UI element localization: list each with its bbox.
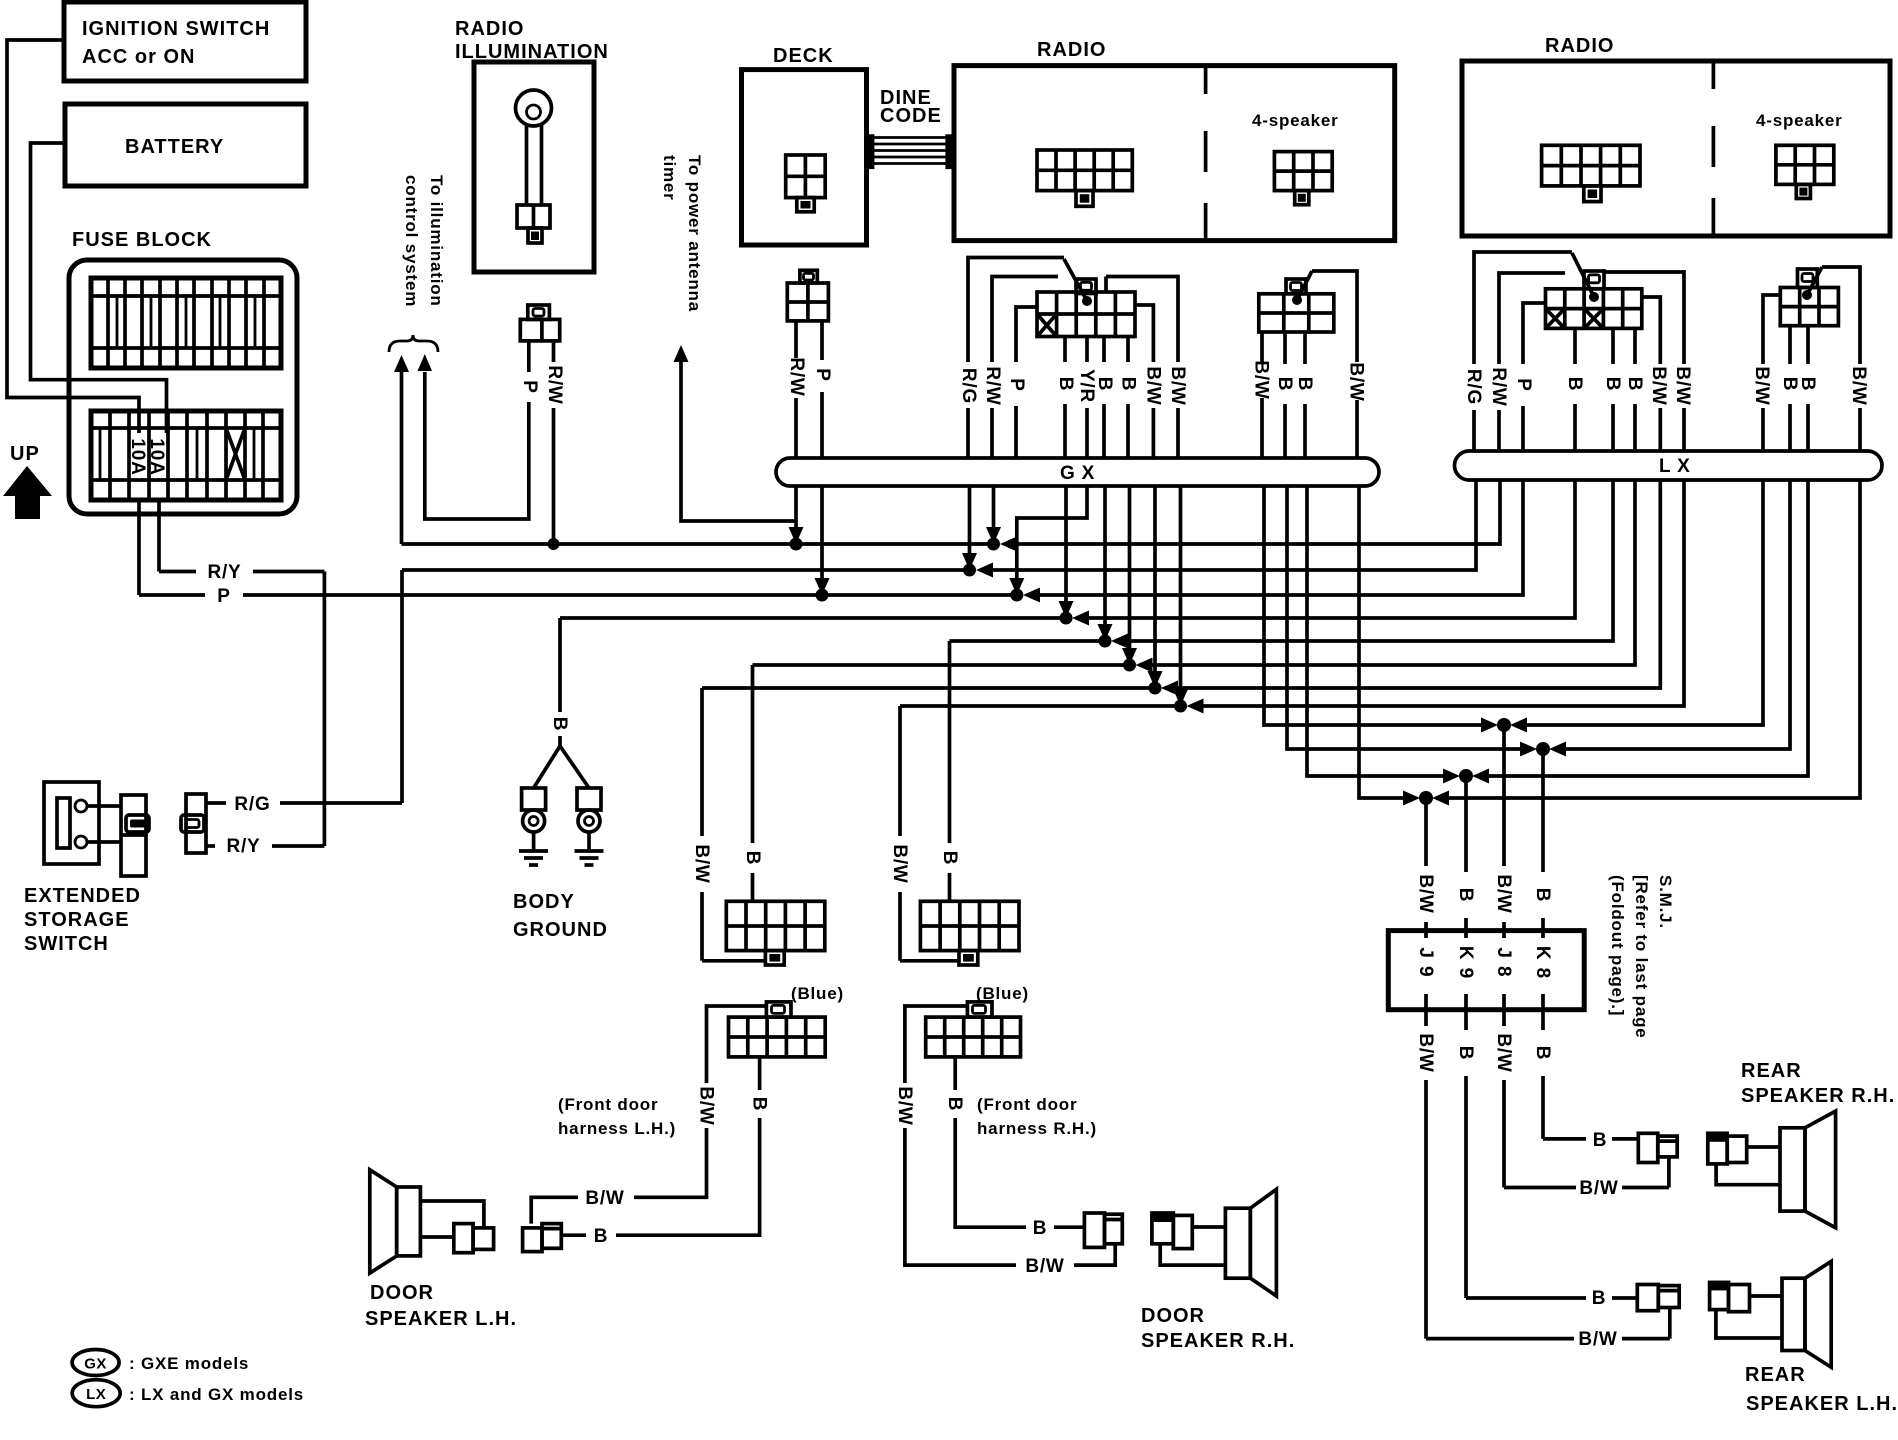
svg-text:R/G: R/G (958, 368, 979, 404)
radio LX divider dashed (1712, 62, 1716, 235)
svg-text:R/W: R/W (982, 366, 1003, 405)
wire SMJ K8 B (1532, 749, 1638, 1151)
legend LX (72, 1380, 304, 1407)
radio LX 4-speaker harness connector (1780, 269, 1838, 326)
extended storage switch label (24, 885, 141, 955)
wire fuse to P line (137, 500, 141, 595)
wire radio GX B door ground (1122, 337, 1137, 672)
svg-text:GX: GX (84, 1356, 107, 1373)
svg-text:R/Y: R/Y (207, 562, 241, 583)
radio GX box (954, 66, 1395, 241)
svg-text:B/W: B/W (1493, 1033, 1514, 1072)
to power antenna timer label (660, 155, 704, 312)
power antenna arrow and wire (674, 345, 797, 521)
wire SMJ K9 B (1455, 776, 1637, 1309)
wire deck P (815, 321, 830, 602)
wire R/G from storage switch connector (206, 570, 402, 815)
svg-text:harness L.H.): harness L.H.) (558, 1119, 676, 1138)
wire SMJ J9 B/W (1415, 798, 1670, 1350)
svg-text:B/W: B/W (1415, 1033, 1436, 1072)
svg-text:4-speaker: 4-speaker (1252, 111, 1339, 130)
svg-text:B/W: B/W (1672, 366, 1693, 405)
wire B/W front door RH net horizontal (900, 704, 1181, 708)
svg-text:P: P (1006, 378, 1027, 391)
fuse block upper grid (91, 278, 281, 368)
svg-text:R/W: R/W (544, 365, 565, 404)
wire R/W from illumination connector to R/W line (552, 341, 556, 362)
brace under illumination label (389, 335, 438, 352)
svg-text:B: B (944, 1097, 965, 1112)
wire radio LX B/W (1) (1161, 297, 1660, 696)
wire radio GX B/W right (1106, 277, 1188, 713)
deck box (742, 70, 867, 245)
rear speaker RH harness connector (1638, 1133, 1677, 1162)
wire radio LX B (2) (1111, 328, 1613, 648)
svg-text:B: B (1564, 377, 1585, 392)
wire GX speaker B/W to SMJ J9 (1312, 271, 1420, 806)
svg-text:P: P (1513, 378, 1534, 391)
door speaker RH symbol (1225, 1189, 1276, 1296)
wire GX speaker B/W to SMJ J8 (1262, 332, 1498, 733)
svg-text:R/W: R/W (1488, 367, 1509, 406)
wire B/W to blue connector LH (691, 688, 765, 961)
svg-text:: LX and GX models: : LX and GX models (129, 1385, 304, 1404)
svg-text:(Front door: (Front door (558, 1095, 658, 1114)
svg-text:B: B (742, 851, 763, 866)
rear speaker RH symbol (1780, 1111, 1836, 1228)
LX bus pill (1455, 451, 1883, 480)
wire radio LX P (1023, 303, 1546, 603)
wire radio LX R/W (1000, 273, 1565, 552)
wire ignition switch to fuse block (7, 40, 139, 433)
radio GX harness connector X mark (1037, 314, 1057, 337)
wire P from illumination connector (527, 341, 531, 372)
svg-text:B: B (749, 1097, 770, 1112)
svg-text:To power antenna: To power antenna (685, 155, 704, 312)
wire radio LX B (1) (1072, 328, 1575, 625)
ground symbol left (519, 851, 548, 865)
blue connector RH body side (920, 901, 1019, 965)
svg-text:harness R.H.): harness R.H.) (977, 1119, 1097, 1138)
ignition switch box (64, 2, 306, 81)
wire deck R/W (789, 321, 804, 551)
wire radio GX Y/R (1009, 337, 1087, 602)
svg-text:B: B (1033, 1218, 1048, 1239)
wire GX speaker B to SMJ K8 (1285, 332, 1537, 757)
svg-text:BATTERY: BATTERY (125, 136, 224, 158)
svg-text:R/G: R/G (1463, 369, 1484, 405)
svg-text:B/W: B/W (1493, 874, 1514, 913)
svg-text:B/W: B/W (1143, 366, 1164, 405)
svg-text:P: P (217, 586, 230, 607)
blue connector RH door side (926, 1002, 1021, 1057)
svg-text:Y/R: Y/R (1076, 369, 1097, 403)
svg-text:SPEAKER R.H.: SPEAKER R.H. (1741, 1085, 1895, 1107)
svg-text:B/W: B/W (1751, 366, 1772, 405)
svg-text:DOOR: DOOR (1141, 1305, 1205, 1327)
wire B to blue connector LH (742, 665, 763, 901)
front door harness LH label (558, 1095, 676, 1138)
UP label and arrow (3, 443, 52, 519)
svg-text:GROUND: GROUND (513, 919, 608, 941)
GX bus pill (776, 458, 1379, 486)
wire B door RH (944, 1057, 1084, 1239)
svg-text:B: B (1118, 377, 1139, 392)
rear speaker LH speaker connector (1710, 1282, 1750, 1311)
rear speaker LH wires (1716, 1296, 1782, 1338)
to illumination control system label (402, 175, 446, 307)
illumination control arrows (394, 354, 432, 544)
svg-text:J9: J9 (1415, 947, 1436, 984)
radio LX box (1462, 61, 1890, 236)
wire GX speaker B to SMJ K9 (1305, 332, 1460, 784)
door speaker LH harness connector (523, 1224, 562, 1252)
svg-text:B: B (594, 1226, 609, 1247)
wire LX speaker B/W to SMJ J8 (1510, 295, 1780, 733)
svg-text:DOOR: DOOR (370, 1282, 434, 1304)
deck internal connector (786, 155, 826, 212)
door speaker LH wires (420, 1201, 484, 1237)
svg-text:B/W: B/W (1848, 366, 1869, 405)
wire radio LX B/W (2) (1187, 272, 1685, 714)
wire radio LX R/G (976, 252, 1572, 578)
door speaker RH harness connector (1084, 1213, 1122, 1247)
door speaker LH speaker connector (454, 1224, 494, 1253)
body ground terminal left (522, 788, 546, 851)
front door harness RH label (977, 1095, 1097, 1138)
SMJ box (1388, 931, 1584, 1010)
wire B body ground (534, 618, 589, 788)
radio LX harness connector (1546, 271, 1642, 328)
svg-text:P: P (519, 380, 540, 393)
deck harness connector (787, 270, 828, 321)
svg-text:J8: J8 (1493, 947, 1514, 984)
svg-text:B/W: B/W (894, 1086, 915, 1125)
svg-text:SWITCH: SWITCH (24, 933, 109, 955)
door speaker LH symbol (370, 1170, 421, 1273)
svg-text:B: B (1602, 377, 1623, 392)
svg-text:[Refer to last page: [Refer to last page (1632, 875, 1651, 1039)
fuse block lower grid (91, 411, 281, 500)
svg-text:EXTENDED: EXTENDED (24, 885, 141, 907)
svg-text:(Blue): (Blue) (791, 984, 844, 1003)
wire R/G net horizontal (402, 568, 970, 572)
svg-text:B: B (1624, 377, 1645, 392)
svg-text:4-speaker: 4-speaker (1756, 111, 1843, 130)
svg-text:G X: G X (1060, 463, 1095, 484)
wire B to blue connector RH (939, 641, 960, 901)
svg-text:B/W: B/W (889, 844, 910, 883)
svg-text:B/W: B/W (696, 1086, 717, 1125)
door speaker RH speaker connector (1152, 1213, 1192, 1249)
body ground label (513, 891, 608, 941)
junction dot SMJ J9 feed (1419, 791, 1433, 805)
radio illumination bulb (516, 90, 552, 243)
wire B/W to blue connector RH (889, 706, 959, 961)
rear speaker LH symbol (1782, 1261, 1831, 1367)
radio GX internal connector (1037, 150, 1132, 206)
blue connector LH body side (726, 901, 825, 965)
radio GX 4-speaker pin dot and diagonal (1292, 271, 1312, 305)
door speaker LH label (365, 1282, 517, 1330)
wire LX speaker B to SMJ K8 (1549, 326, 1790, 757)
svg-text:B: B (1532, 888, 1553, 903)
svg-text:B/W: B/W (1251, 360, 1272, 399)
svg-text:R/G: R/G (234, 794, 270, 815)
rear speaker RH wires (1716, 1147, 1780, 1185)
svg-text:IGNITION SWITCH: IGNITION SWITCH (82, 18, 270, 40)
wire B ground net horizontal (560, 616, 1066, 620)
radio illumination connector (520, 305, 559, 341)
wire B/W front door LH net horizontal (702, 686, 1155, 690)
wire radio GX B front door LH (1059, 337, 1074, 625)
rear speaker RH speaker connector (1708, 1133, 1747, 1164)
wire radio LX B (3) (1136, 328, 1636, 672)
svg-text:B: B (1593, 1130, 1608, 1151)
junction dot R/W illumination (548, 538, 560, 550)
svg-text:REAR: REAR (1741, 1060, 1802, 1082)
radio LX 4-speaker pin dot and diagonal (1802, 267, 1822, 300)
svg-text:L X: L X (1659, 456, 1691, 477)
wire LX speaker B/W to SMJ J9 (1432, 267, 1860, 806)
svg-text:ACC or ON: ACC or ON (82, 46, 195, 68)
svg-text:S.M.J.: S.M.J. (1656, 875, 1675, 929)
svg-text:FUSE BLOCK: FUSE BLOCK (72, 229, 212, 251)
svg-text:B/W: B/W (1346, 362, 1367, 401)
svg-text:timer: timer (660, 155, 679, 201)
svg-text:RADIO: RADIO (1545, 35, 1614, 57)
radio illumination label (455, 18, 609, 63)
svg-text:B/W: B/W (1579, 1178, 1618, 1199)
rear speaker LH harness connector (1637, 1285, 1679, 1311)
wire battery to fuse block (31, 143, 167, 433)
radio GX harness connector (1037, 279, 1135, 337)
radio illumination box (474, 62, 594, 272)
SMJ label (1608, 875, 1675, 1039)
door speaker RH label (1141, 1305, 1295, 1352)
svg-text:(Foldout page).]: (Foldout page).] (1608, 875, 1627, 1016)
wire B front door LH net horizontal (753, 663, 1130, 667)
svg-text:STORAGE: STORAGE (24, 909, 130, 931)
svg-text:B: B (1592, 1288, 1607, 1309)
svg-text:B: B (1094, 377, 1115, 392)
svg-text:RADIO: RADIO (1037, 39, 1106, 61)
svg-text:P: P (812, 368, 833, 381)
door speaker RH wires (1160, 1227, 1225, 1265)
radio LX 4-speaker internal connector (1776, 145, 1834, 198)
svg-text:B: B (1294, 377, 1315, 392)
svg-text:DECK: DECK (773, 45, 834, 67)
radio GX divider dashed (1204, 67, 1208, 240)
svg-text:B/W: B/W (1578, 1329, 1617, 1350)
svg-text:B/W: B/W (1415, 874, 1436, 913)
svg-text:LX: LX (86, 1386, 106, 1403)
ground symbol right (575, 851, 604, 865)
fuse block outline (69, 260, 297, 514)
svg-text:To illumination: To illumination (427, 175, 446, 307)
radio GX 4-speaker internal connector (1274, 152, 1332, 205)
svg-text:SPEAKER L.H.: SPEAKER L.H. (365, 1308, 517, 1330)
svg-text:B: B (549, 717, 570, 732)
svg-text:B/W: B/W (585, 1188, 624, 1209)
svg-text:B: B (1274, 377, 1295, 392)
svg-text:control system: control system (402, 175, 421, 307)
battery box (65, 104, 306, 186)
svg-text:UP: UP (10, 443, 40, 465)
radio LX internal connector (1542, 145, 1640, 201)
legend GX (72, 1350, 249, 1376)
REAR SPEAKER RH label (1741, 1060, 1895, 1107)
svg-text:SPEAKER L.H.: SPEAKER L.H. (1746, 1393, 1898, 1415)
harness side connector R/G R/Y (181, 794, 206, 853)
radio GX pin D dot and diagonal (1064, 259, 1092, 306)
svg-text:CODE: CODE (880, 105, 942, 127)
svg-text:B: B (1455, 1046, 1476, 1061)
wire fuse to R/Y line (157, 500, 161, 572)
wire B/W door LH (531, 1006, 766, 1224)
junction dot SMJ J8 feed (1497, 718, 1511, 732)
wire SMJ J8 B/W (1493, 725, 1669, 1199)
svg-text:REAR: REAR (1745, 1364, 1806, 1386)
svg-text:B/W: B/W (691, 844, 712, 883)
svg-text:(Front door: (Front door (977, 1095, 1077, 1114)
svg-text:B: B (1055, 377, 1076, 392)
svg-text:10A: 10A (146, 438, 167, 475)
REAR SPEAKER LH label (1745, 1364, 1898, 1415)
svg-text:R/Y: R/Y (226, 836, 260, 857)
body ground terminal right (577, 788, 601, 851)
blue connector LH door side (729, 1002, 826, 1057)
svg-text:10A: 10A (127, 438, 148, 475)
wire B/W door RH (894, 1006, 1115, 1277)
svg-text:B/W: B/W (1025, 1256, 1064, 1277)
junction dot SMJ K9 feed (1459, 769, 1473, 783)
svg-text:K9: K9 (1455, 946, 1476, 986)
wire P net horizontal (139, 586, 1017, 607)
junction dot SMJ K8 feed (1536, 742, 1550, 756)
fuse 10A labels (127, 438, 167, 475)
radio LX pin D dot and diagonal (1572, 253, 1599, 302)
wire radio GX B front door RH (1098, 337, 1113, 648)
wire B door LH (561, 1057, 769, 1247)
svg-text:BODY: BODY (513, 891, 575, 913)
svg-text:: GXE models: : GXE models (129, 1354, 249, 1373)
dine code multi-wire bus (866, 134, 953, 169)
svg-text:RADIO: RADIO (455, 18, 524, 40)
wire R/Y from fuse (159, 562, 324, 857)
radio LX harness connector X marks (1546, 309, 1604, 329)
svg-text:B: B (1797, 377, 1818, 392)
svg-text:B/W: B/W (1167, 366, 1188, 405)
svg-text:B: B (1532, 1046, 1553, 1061)
extended storage switch (44, 782, 121, 864)
svg-text:SPEAKER R.H.: SPEAKER R.H. (1141, 1330, 1295, 1352)
radio GX 4-speaker harness connector (1259, 279, 1334, 332)
DINE CODE label (880, 87, 942, 127)
wire LX speaker B to SMJ K9 (1472, 326, 1808, 784)
wire B front door RH net horizontal (950, 639, 1106, 643)
svg-text:B: B (1779, 377, 1800, 392)
extended storage switch connector (121, 795, 149, 876)
svg-text:B: B (1455, 888, 1476, 903)
wire radio GX R/W (986, 277, 1058, 551)
svg-text:B/W: B/W (1648, 366, 1669, 405)
svg-text:B: B (939, 851, 960, 866)
wire radio GX P (1016, 307, 1037, 458)
svg-text:R/W: R/W (786, 357, 807, 396)
fuse X mark (226, 428, 245, 480)
svg-text:K8: K8 (1532, 946, 1553, 986)
wire radio GX R/G (962, 258, 1064, 577)
wire radio GX B/W left (1135, 305, 1163, 695)
wire R/W net horizontal (402, 542, 994, 546)
